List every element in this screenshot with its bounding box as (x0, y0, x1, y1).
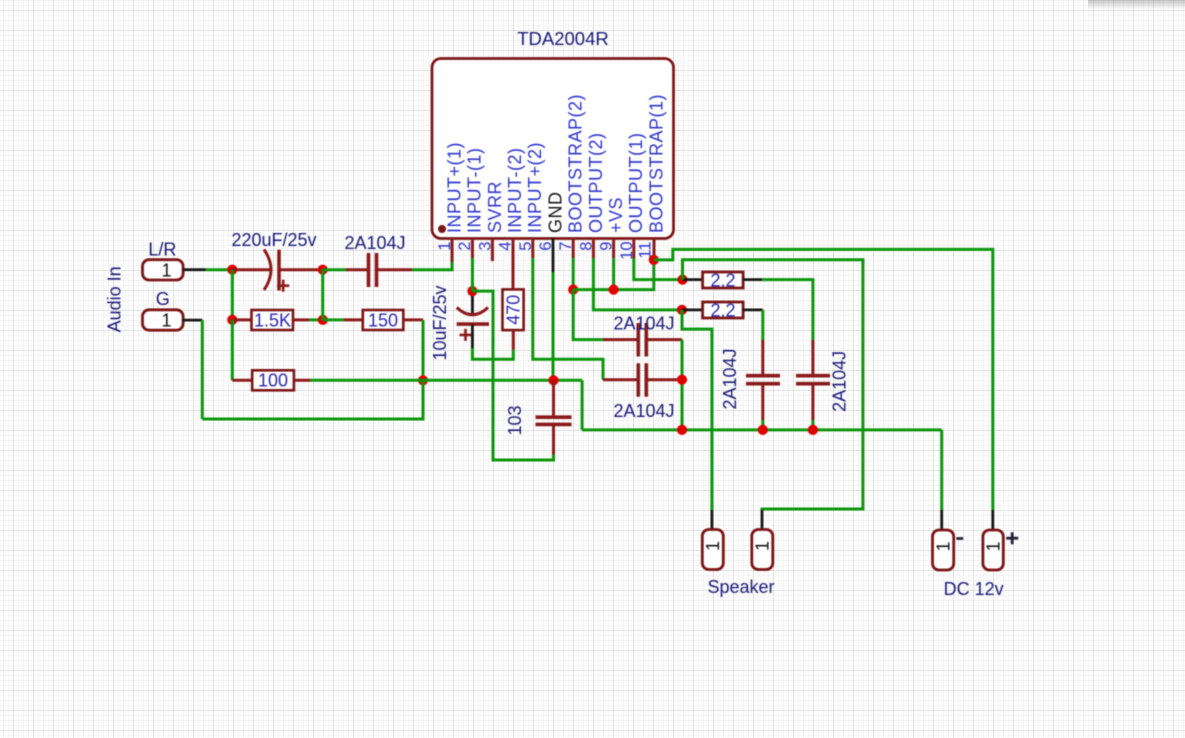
wire pin2 down (471, 258, 474, 291)
svg-text:G: G (156, 289, 170, 309)
connector P1 L/R box (143, 260, 184, 280)
wire pin2 loop right and down to 103 bottom (472, 291, 553, 460)
P2 pin lead (183, 319, 203, 322)
resistor R2 150 left lead (344, 318, 363, 321)
wire pin7 down (572, 258, 575, 290)
pin 5 stub (531, 238, 534, 258)
svg-text:OUTPUT(1): OUTPUT(1) (626, 133, 646, 234)
svg-text:7: 7 (557, 242, 575, 251)
node junction pin8 / R5 (677, 305, 687, 315)
wire R2 down to 100 row (422, 320, 425, 380)
wire R3 to long ground row (310, 379, 582, 382)
svg-text:5: 5 (517, 242, 535, 251)
wire 1.5K junction down to R3 (231, 320, 234, 380)
wire C3 bottom to 470 bottom (472, 348, 513, 359)
svg-text:1: 1 (161, 260, 171, 280)
svg-text:9: 9 (598, 242, 616, 251)
C1 curved plate (264, 250, 271, 291)
R3 right lead (294, 379, 310, 382)
node junction 100 row (418, 375, 428, 385)
node junction pin7 (568, 285, 578, 295)
svg-text:6: 6 (537, 242, 555, 251)
svg-text:BOOTSTRAP(2): BOOTSTRAP(2) (566, 94, 586, 233)
svg-text:OUTPUT(2): OUTPUT(2) (586, 133, 606, 234)
svg-text:150: 150 (368, 310, 398, 330)
svg-text:10: 10 (618, 242, 636, 260)
wire pins 7-9-11 row (573, 260, 654, 290)
C2 plates (369, 253, 377, 287)
C4 bottom lead (552, 424, 555, 454)
svg-text:4: 4 (497, 242, 515, 251)
C8 bottom lead (811, 384, 814, 420)
resistor R1 1.5K left lead (232, 318, 251, 321)
C1 straight plate (277, 250, 281, 291)
wire pin5 to lower mid cap (533, 258, 603, 380)
node junction C7 ground (758, 425, 768, 435)
wire pin6 down (552, 272, 555, 380)
R2 right lead (403, 318, 423, 321)
capacitor C4 103 top lead (552, 380, 555, 417)
wire R6-left junction up over to speaker2 (683, 260, 863, 511)
C3 plus sign (460, 329, 472, 341)
wire pin10 down and right (634, 258, 683, 280)
svg-text:2A104J: 2A104J (344, 233, 405, 253)
wire pin11 to +VS rail (654, 249, 993, 510)
svg-text:Speaker: Speaker (707, 577, 774, 597)
svg-text:2A104J: 2A104J (720, 348, 740, 409)
C3 bottom lead (471, 324, 474, 348)
wire ground row step down (581, 380, 584, 430)
wire junction to C2 (323, 268, 346, 271)
node junction ground row at 682 (677, 425, 687, 435)
R3 body (252, 370, 294, 390)
svg-text:2A104J: 2A104J (613, 314, 674, 334)
C2 right lead (377, 268, 413, 271)
svg-text:470: 470 (503, 295, 523, 325)
node junction pin2 (467, 286, 477, 296)
resistor R3 100 left lead (232, 379, 252, 382)
capacitor C8 2A104J (vertical right) top lead (811, 340, 814, 376)
svg-text:2: 2 (456, 242, 474, 251)
node junction C1/C2 (318, 265, 328, 275)
R4 top lead to pin4 (512, 270, 515, 289)
wire L/R junction down to 1.5K junction (231, 270, 234, 320)
svg-text:2A104J: 2A104J (613, 401, 674, 421)
C6 plates (638, 363, 646, 396)
svg-text:100: 100 (258, 371, 288, 391)
R1 right lead (293, 318, 309, 321)
pin 9 stub (612, 238, 615, 258)
C4 plates (536, 417, 572, 424)
capacitor C2 2A104J left lead (346, 268, 368, 271)
svg-text:220uF/25v: 220uF/25v (231, 230, 316, 250)
wire pin9 down (612, 258, 615, 290)
C3 curved plate (457, 308, 488, 315)
R4 bottom lead (512, 330, 515, 350)
node junction mid row (318, 315, 328, 325)
resistor R4 470 body (503, 289, 524, 330)
svg-text:INPUT-(1): INPUT-(1) (465, 148, 485, 234)
pin 7 stub (572, 238, 575, 258)
op-amp U1 TDA2004R body (432, 59, 674, 239)
wire junction to R2 (323, 318, 344, 321)
node junction pin9 (609, 285, 619, 295)
wire C2 to pin1 (412, 262, 452, 270)
P3 box (702, 530, 723, 570)
R6 right lead (743, 278, 762, 281)
wire pin8 down and right (593, 258, 682, 310)
capacitor C6 2A104J (lower middle) left lead (603, 378, 638, 381)
P4 box (752, 530, 773, 570)
C1 right lead (279, 268, 323, 271)
R1 body (252, 310, 294, 330)
C5 right lead (646, 338, 682, 341)
C7 bottom wire (761, 420, 764, 430)
svg-text:2A104J: 2A104J (830, 351, 850, 412)
pin 10 stub (632, 238, 635, 258)
node junction pin10 / R6 (677, 275, 687, 285)
svg-text:1.5K: 1.5K (254, 310, 291, 330)
pin 4 stub (512, 238, 515, 270)
wire pin11 junction (649, 255, 659, 265)
svg-text:DC 12v: DC 12v (944, 579, 1004, 599)
wire junction down and left to G column (202, 380, 423, 419)
wire ground row down to DC- (940, 430, 943, 510)
connector P2 G box (143, 310, 184, 330)
capacitor C5 2A104J (upper middle) left lead (603, 338, 638, 341)
svg-text:SVRR: SVRR (485, 181, 505, 233)
svg-text:INPUT+(2): INPUT+(2) (525, 142, 545, 233)
P5 box (933, 530, 954, 570)
svg-text:2.2: 2.2 (710, 271, 735, 291)
R5 right lead (743, 308, 763, 311)
svg-text:1: 1 (983, 541, 1003, 551)
pin 3 stub (unconnected SVRR) (491, 238, 494, 261)
svg-text:INPUT-(2): INPUT-(2) (505, 148, 525, 234)
connector P5 DC- lead (940, 510, 943, 531)
node junction on L/R net (227, 265, 237, 275)
node junction C8 ground (808, 425, 818, 435)
C8 bottom wire (811, 420, 814, 430)
pin 1 stub (451, 238, 454, 264)
wire L/R to junction (206, 268, 233, 271)
node junction C6 right (677, 375, 687, 385)
svg-text:L/R: L/R (148, 240, 176, 260)
svg-text:1: 1 (161, 311, 171, 331)
svg-text:TDA2004R: TDA2004R (517, 28, 609, 49)
svg-text:10uF/25v: 10uF/25v (430, 285, 450, 360)
svg-text:1: 1 (933, 541, 953, 551)
wire R6 to C8 column (762, 280, 813, 340)
R6 body (703, 272, 744, 288)
svg-text:3: 3 (476, 242, 494, 251)
connector P6 DC+ lead (991, 510, 994, 531)
wire pin8 junction to speaker pin (682, 310, 712, 510)
wire R1 to junction (309, 318, 323, 321)
P6 box (983, 530, 1003, 570)
pin 11 stub (653, 238, 656, 260)
pin 2 stub (471, 238, 474, 258)
C7 bottom lead (761, 384, 764, 420)
pin 6 stub (GND, black) (552, 238, 555, 272)
resistor R5 2.2 (lower) left lead (682, 308, 703, 311)
C5 plates (638, 323, 646, 357)
wire long bottom ground row (582, 428, 942, 431)
svg-text:+VS: +VS (606, 197, 626, 233)
C3 straight plate (457, 322, 489, 326)
svg-text:Audio In: Audio In (105, 266, 125, 332)
R5 body (703, 302, 744, 318)
wire junction vertical C1-R1 rows (321, 270, 324, 320)
wire G column up (201, 320, 204, 419)
C7 plates (746, 376, 780, 384)
resistor R6 2.2 (upper) left lead (683, 278, 703, 281)
connector P3 speaker pin 1 lead (711, 510, 714, 530)
svg-text:INPUT+(1): INPUT+(1) (444, 142, 464, 233)
P1 pin lead (183, 268, 205, 271)
wire caps right column (681, 340, 684, 430)
svg-text:2.2: 2.2 (710, 301, 735, 321)
svg-text:1: 1 (436, 242, 454, 251)
svg-text:8: 8 (577, 242, 595, 251)
node junction pin6 / 103 (548, 375, 558, 385)
svg-text:103: 103 (505, 405, 525, 435)
node junction at 1.5K left (227, 315, 237, 325)
svg-text:1: 1 (752, 541, 772, 551)
U1 pin-1 marker dot (438, 225, 446, 233)
wire R5 down to C7 (761, 310, 764, 340)
C8 plates (796, 376, 830, 384)
wire pin7 to upper mid cap (573, 290, 603, 340)
svg-text:GND: GND (545, 192, 565, 234)
minus sign (956, 537, 963, 540)
C1 plus sign (277, 280, 289, 292)
svg-text:1: 1 (703, 541, 723, 551)
pin 8 stub (592, 238, 595, 258)
capacitor C3 10uF/25v top lead (471, 291, 474, 313)
svg-text:BOOTSTRAP(1): BOOTSTRAP(1) (646, 94, 666, 233)
capacitor C1 220uF/25v left lead (232, 268, 271, 271)
C6 right lead (646, 378, 682, 381)
R2 body (363, 310, 404, 330)
capacitor C7 2A104J (vertical left) top lead (761, 340, 764, 376)
connector P4 speaker pin 2 lead (761, 510, 764, 530)
plus sign (1006, 532, 1018, 544)
